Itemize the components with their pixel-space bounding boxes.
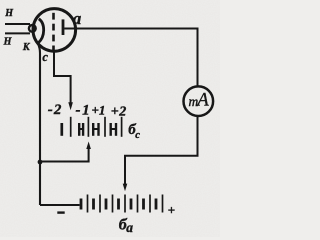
grid (dashed) [52,13,55,51]
cathode arc [38,19,43,43]
tube envelope V1 [33,9,76,52]
anode plate [62,19,65,35]
cell bar long [87,117,89,137]
cell bar short [60,123,63,136]
cell pair H3 [109,123,111,136]
cathode lead wire [38,44,40,206]
arrow to cathode tap on bias battery [86,142,91,150]
cell bar long [104,117,106,137]
heater lead lower [5,32,30,34]
long bars [87,195,89,213]
heater lead upper [5,23,30,25]
arrow to grid battery tap [68,102,73,110]
cathode tap wire [40,148,89,162]
cell bar long [121,117,123,137]
grid wire to bias tap [54,51,71,104]
anode lead wire to meter [64,29,197,87]
battery Bc (grid bias) [62,117,122,137]
bottom wire to battery minus [40,204,80,206]
short bars [80,199,83,210]
battery Ba (anode) [81,195,163,213]
cell pair H2 [92,123,94,136]
wire meter to tap arrow [125,116,198,185]
cell bar long [70,117,72,137]
cell pair H1 [78,123,80,136]
junction node [38,160,43,165]
milliammeter mA [184,86,214,116]
arrow to anode battery tap [123,184,128,192]
label minus [57,211,64,213]
heater filament loop [29,25,36,32]
